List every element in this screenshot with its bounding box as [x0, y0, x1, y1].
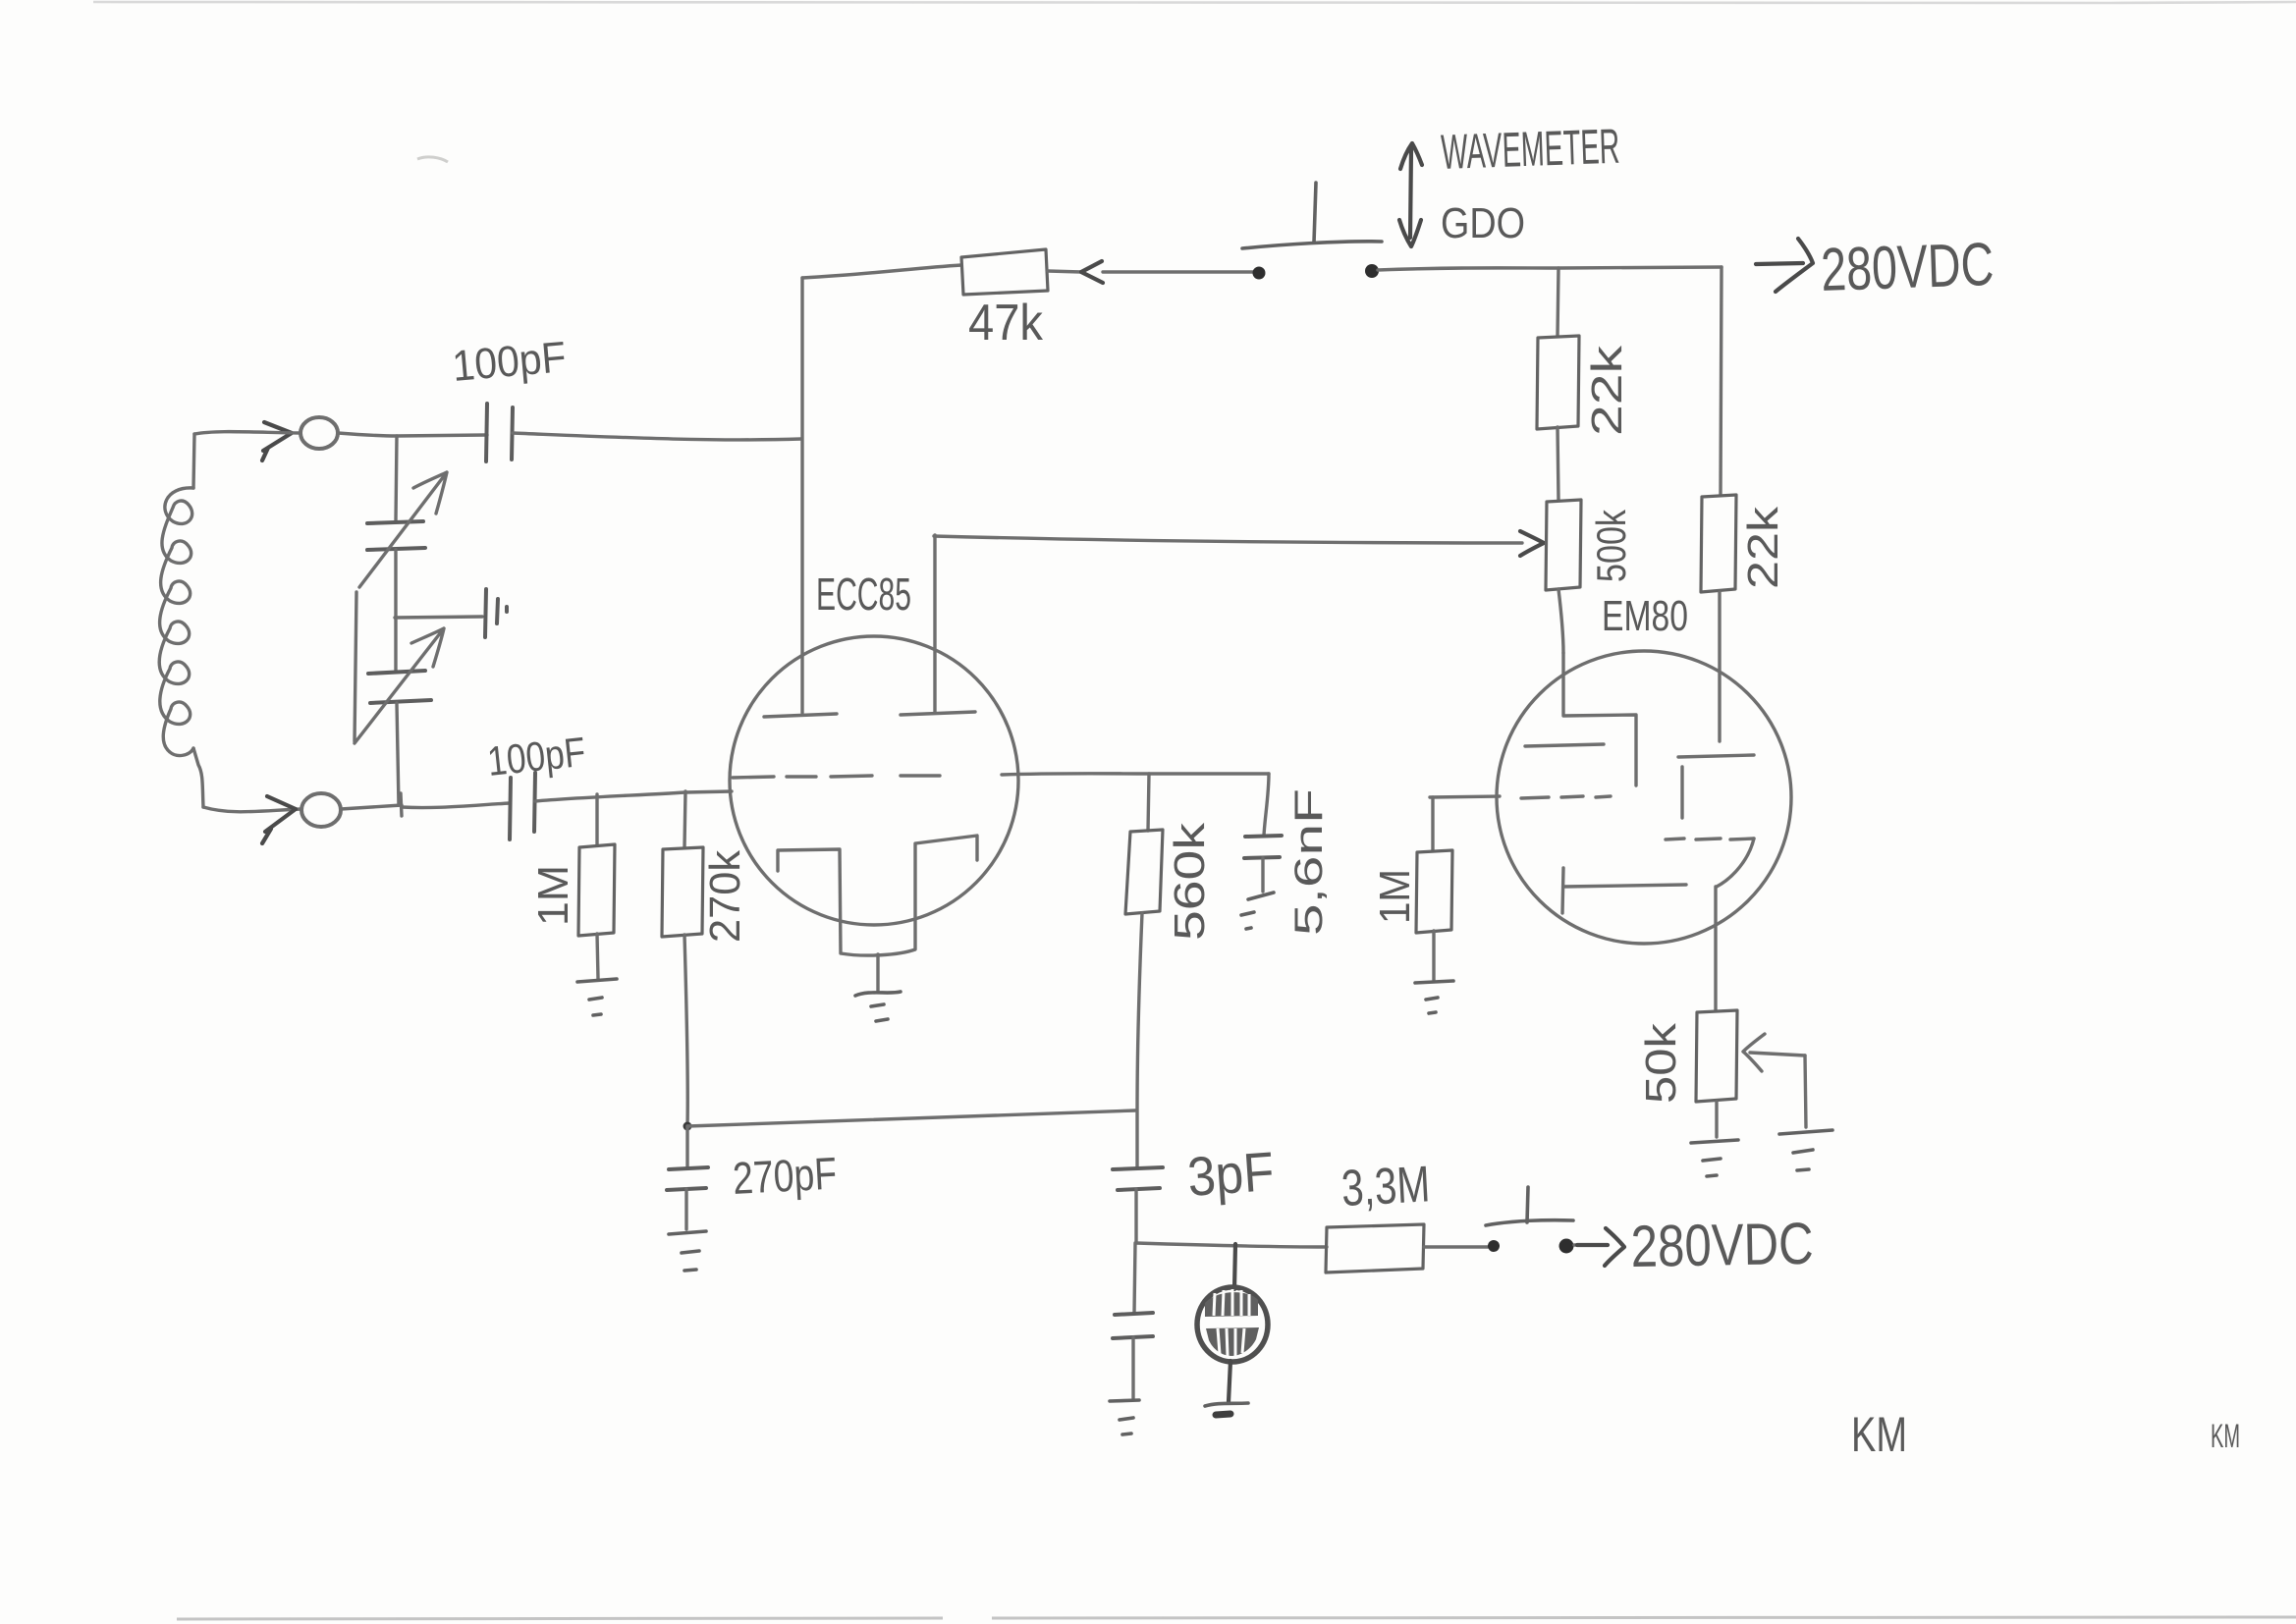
wire grid node to R1	[595, 794, 598, 845]
wire R5 to arrow	[1048, 271, 1081, 272]
wire R2 down to node D	[684, 935, 687, 1126]
variable capacitor CV2 lower stem	[397, 703, 399, 805]
svg-text:GDO: GDO	[1441, 199, 1525, 247]
ground below X1	[1205, 1403, 1248, 1406]
P2 wiper wire down	[1805, 1056, 1806, 1127]
junction node B tick	[401, 793, 402, 816]
svg-text:WAVEMETER: WAVEMETER	[1440, 119, 1620, 180]
scan edge top	[93, 2, 2296, 3]
svg-text:EM80: EM80	[1602, 592, 1688, 640]
wire C5 to ground	[684, 1189, 687, 1229]
V2 grid wire in	[1430, 796, 1500, 797]
svg-text:3,3M: 3,3M	[1340, 1156, 1432, 1218]
V1 anode lead right	[933, 535, 936, 713]
earpiece X1 bottom segment	[1206, 1327, 1259, 1356]
P1 wiper arrowhead	[1520, 531, 1544, 556]
wire grid node to R8	[1431, 797, 1434, 850]
wire R7 to V2	[1718, 592, 1721, 741]
V2 grid dashes row2	[1666, 839, 1754, 839]
V2 left electrode step	[1563, 653, 1636, 785]
280VDC arrow top	[1756, 239, 1813, 292]
SW2 contact dot left	[1488, 1240, 1500, 1252]
svg-text:KM: KM	[1851, 1407, 1907, 1462]
svg-text:50k: 50k	[1637, 1022, 1685, 1104]
coil bottom wire to corner	[193, 748, 203, 807]
ground below V1	[855, 992, 901, 1021]
wire grid node to R2	[684, 791, 685, 847]
wire V1 left anode to R5	[802, 265, 961, 278]
resistor R3 560k	[1125, 830, 1163, 914]
V2 center tick	[1680, 767, 1683, 818]
svg-text:22k: 22k	[1739, 506, 1787, 589]
V2 curve to target	[1717, 839, 1754, 887]
rotor stub wire	[395, 617, 482, 618]
WAVEMETER/GDO double arrow	[1399, 143, 1422, 246]
wire SW2 out	[1574, 1243, 1608, 1246]
variable capacitor CV2 plates	[368, 671, 431, 703]
wire C1 to ECC85 anode column	[513, 433, 801, 440]
svg-text:270k: 270k	[701, 849, 749, 943]
variable capacitor CV1 plates	[367, 521, 425, 550]
svg-text:270pF: 270pF	[732, 1148, 839, 1204]
capacitor C6 3pF plates	[1113, 1167, 1163, 1190]
V1 cathode pin	[876, 954, 879, 991]
ground below P2 wiper	[1779, 1130, 1832, 1170]
wire C4 to ground	[1261, 858, 1264, 892]
magic eye V2 EM80 envelope	[1497, 651, 1791, 944]
wire node B to C2	[402, 803, 510, 808]
ground below C4	[1241, 893, 1274, 929]
wire node to R3 560k	[1148, 774, 1149, 831]
capacitor C7 plates	[1113, 1313, 1153, 1338]
capacitor C4 5,6nF plates	[1244, 836, 1282, 858]
wire R6 to P1	[1558, 427, 1558, 500]
wire corner to J2	[203, 807, 301, 812]
ground below R8	[1415, 981, 1453, 1013]
P2 wiper arrow	[1743, 1034, 1805, 1071]
wire V1 right anode to P1 wiper	[934, 536, 1522, 543]
potentiometer P1 500k body	[1546, 500, 1581, 590]
V1 anode lead left	[800, 278, 803, 713]
SW1 contact dot right	[1365, 264, 1379, 278]
wire P1 to V2	[1558, 589, 1563, 653]
input terminal J2 bottom: chevron	[262, 796, 296, 843]
wire C7 to ground	[1131, 1337, 1134, 1398]
wire J1 to node A	[338, 433, 487, 436]
earpiece X1 stem bottom	[1229, 1361, 1230, 1402]
input terminal J1 top: circle	[301, 417, 338, 449]
resistor R8 1M	[1416, 850, 1452, 933]
inductor L1 coil	[193, 434, 194, 488]
V1 grid dashed line	[733, 776, 940, 778]
ground below P2	[1691, 1140, 1738, 1176]
earpiece X1 shell	[1197, 1287, 1268, 1362]
wire R1 to ground	[597, 934, 598, 979]
V1 anode bar right	[901, 712, 975, 715]
wire top corner to R7	[1721, 267, 1722, 495]
wire R3 down to node C	[1137, 913, 1142, 1167]
V2 grid dashes row1	[1521, 796, 1611, 798]
resistor R4 3,3M	[1326, 1224, 1424, 1272]
svg-text:1M: 1M	[1371, 869, 1419, 924]
variable capacitor CV1 stem	[396, 436, 397, 521]
link wire node D to node C	[687, 1110, 1135, 1126]
280VDC arrow bottom	[1577, 1228, 1624, 1266]
wire J2 to node B	[341, 805, 402, 809]
svg-text:1M: 1M	[529, 865, 577, 926]
junction dot node D	[683, 1122, 692, 1131]
resistor R7 22k	[1701, 495, 1736, 592]
svg-text:5,6nF: 5,6nF	[1287, 788, 1331, 936]
capacitor C2 100pF bottom plates	[510, 773, 535, 839]
wire top node to R6	[1558, 268, 1558, 336]
svg-text:ECC85: ECC85	[816, 568, 911, 620]
input terminal J1 top: chevron	[262, 422, 292, 460]
wire node E to R4	[1136, 1243, 1327, 1247]
wire corner to J1	[194, 432, 301, 434]
resistor R2 270k	[662, 847, 703, 937]
faint smudge	[417, 157, 448, 162]
wire R8 to ground	[1432, 931, 1435, 980]
direction arrow on wire	[1081, 261, 1103, 283]
svg-text:KM: KM	[2211, 1418, 2240, 1455]
svg-text:280VDC: 280VDC	[1630, 1211, 1814, 1279]
wire node E down to C7	[1134, 1243, 1135, 1313]
V1 anode bar left	[764, 714, 837, 717]
earpiece X1 top segment	[1205, 1292, 1258, 1317]
wire SW1 to 22k node	[1378, 267, 1722, 270]
resistor R6 22k	[1537, 336, 1579, 429]
svg-text:22k: 22k	[1583, 345, 1631, 436]
svg-text:560k: 560k	[1166, 822, 1214, 941]
trimmer ticks	[485, 589, 507, 637]
capacitor C5 270pF plates	[667, 1167, 708, 1190]
gang link CV1-CV2	[355, 592, 356, 741]
wire R4 to SW2	[1424, 1245, 1488, 1248]
input terminal J2 bottom: circle	[301, 793, 341, 827]
SW1 lever bar	[1242, 242, 1382, 248]
SW1 contact dot left	[1253, 267, 1266, 280]
ground below C5	[669, 1231, 706, 1271]
variable capacitor CV2 stem	[394, 550, 397, 672]
V2 target left tick	[1562, 868, 1563, 913]
triode V1 ECC85 envelope	[730, 636, 1018, 925]
V2 target bar	[1563, 885, 1686, 887]
earpiece X1 top hatch	[1214, 1289, 1249, 1316]
resistor R5 47k	[961, 249, 1048, 295]
V2 grid bar left	[1525, 744, 1604, 746]
wire arrow to SW1	[1103, 270, 1255, 273]
ground mark below X1	[1216, 1414, 1230, 1415]
SW2 contact dot right	[1559, 1239, 1574, 1254]
SW2 actuator	[1527, 1187, 1528, 1222]
V2 bottom lead	[1714, 887, 1717, 1010]
ground below C7	[1110, 1400, 1139, 1435]
svg-text:3pF: 3pF	[1185, 1140, 1276, 1208]
variable capacitor CV1 arrow	[359, 472, 447, 587]
earpiece X1 bottom hatch	[1218, 1328, 1244, 1356]
wire node D to C5	[685, 1126, 688, 1167]
resistor R1 1M	[578, 844, 615, 936]
P2 bottom lead	[1715, 1102, 1718, 1137]
variable capacitor CV2 arrow	[355, 628, 444, 743]
V1 cathode structure	[778, 836, 977, 955]
scan edge bottom	[177, 1617, 2296, 1619]
svg-text:47k: 47k	[968, 295, 1044, 352]
svg-text:500k: 500k	[1588, 509, 1634, 582]
V2 grid bar right	[1678, 755, 1754, 757]
SW2 lever bar	[1486, 1220, 1573, 1225]
capacitor C1 100pF top plates	[486, 404, 513, 461]
earpiece X1 stem top	[1234, 1244, 1235, 1289]
svg-text:100pF: 100pF	[451, 333, 569, 391]
ground below R1	[577, 979, 617, 1015]
svg-text:280VDC: 280VDC	[1820, 231, 1995, 304]
SW1 actuator	[1314, 183, 1316, 243]
potentiometer P2 50k body	[1696, 1010, 1737, 1102]
wire C6 to node E	[1134, 1189, 1137, 1243]
wire C2 to grid node	[535, 791, 732, 801]
V1 grid wire out	[1002, 774, 1269, 775]
wire corner down to C4	[1264, 774, 1269, 836]
